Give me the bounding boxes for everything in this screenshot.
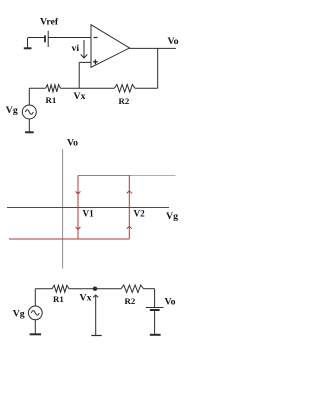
svg-text:Vg: Vg	[166, 211, 178, 222]
svg-text:Vx: Vx	[74, 91, 86, 102]
svg-text:V1: V1	[83, 209, 95, 219]
svg-text:Vg: Vg	[13, 309, 25, 320]
svg-text:R1: R1	[53, 294, 64, 304]
svg-text:Vg: Vg	[6, 105, 18, 116]
svg-text:Vref: Vref	[40, 17, 59, 28]
svg-text:Vx: Vx	[80, 293, 92, 304]
svg-text:Vo: Vo	[168, 36, 179, 47]
svg-text:R2: R2	[125, 296, 136, 306]
svg-text:V2: V2	[134, 209, 146, 219]
svg-text:R1: R1	[46, 95, 57, 105]
svg-text:Vo: Vo	[67, 137, 78, 148]
svg-text:Vo: Vo	[165, 297, 176, 308]
svg-text:vi: vi	[72, 43, 80, 54]
svg-text:R2: R2	[119, 96, 130, 106]
